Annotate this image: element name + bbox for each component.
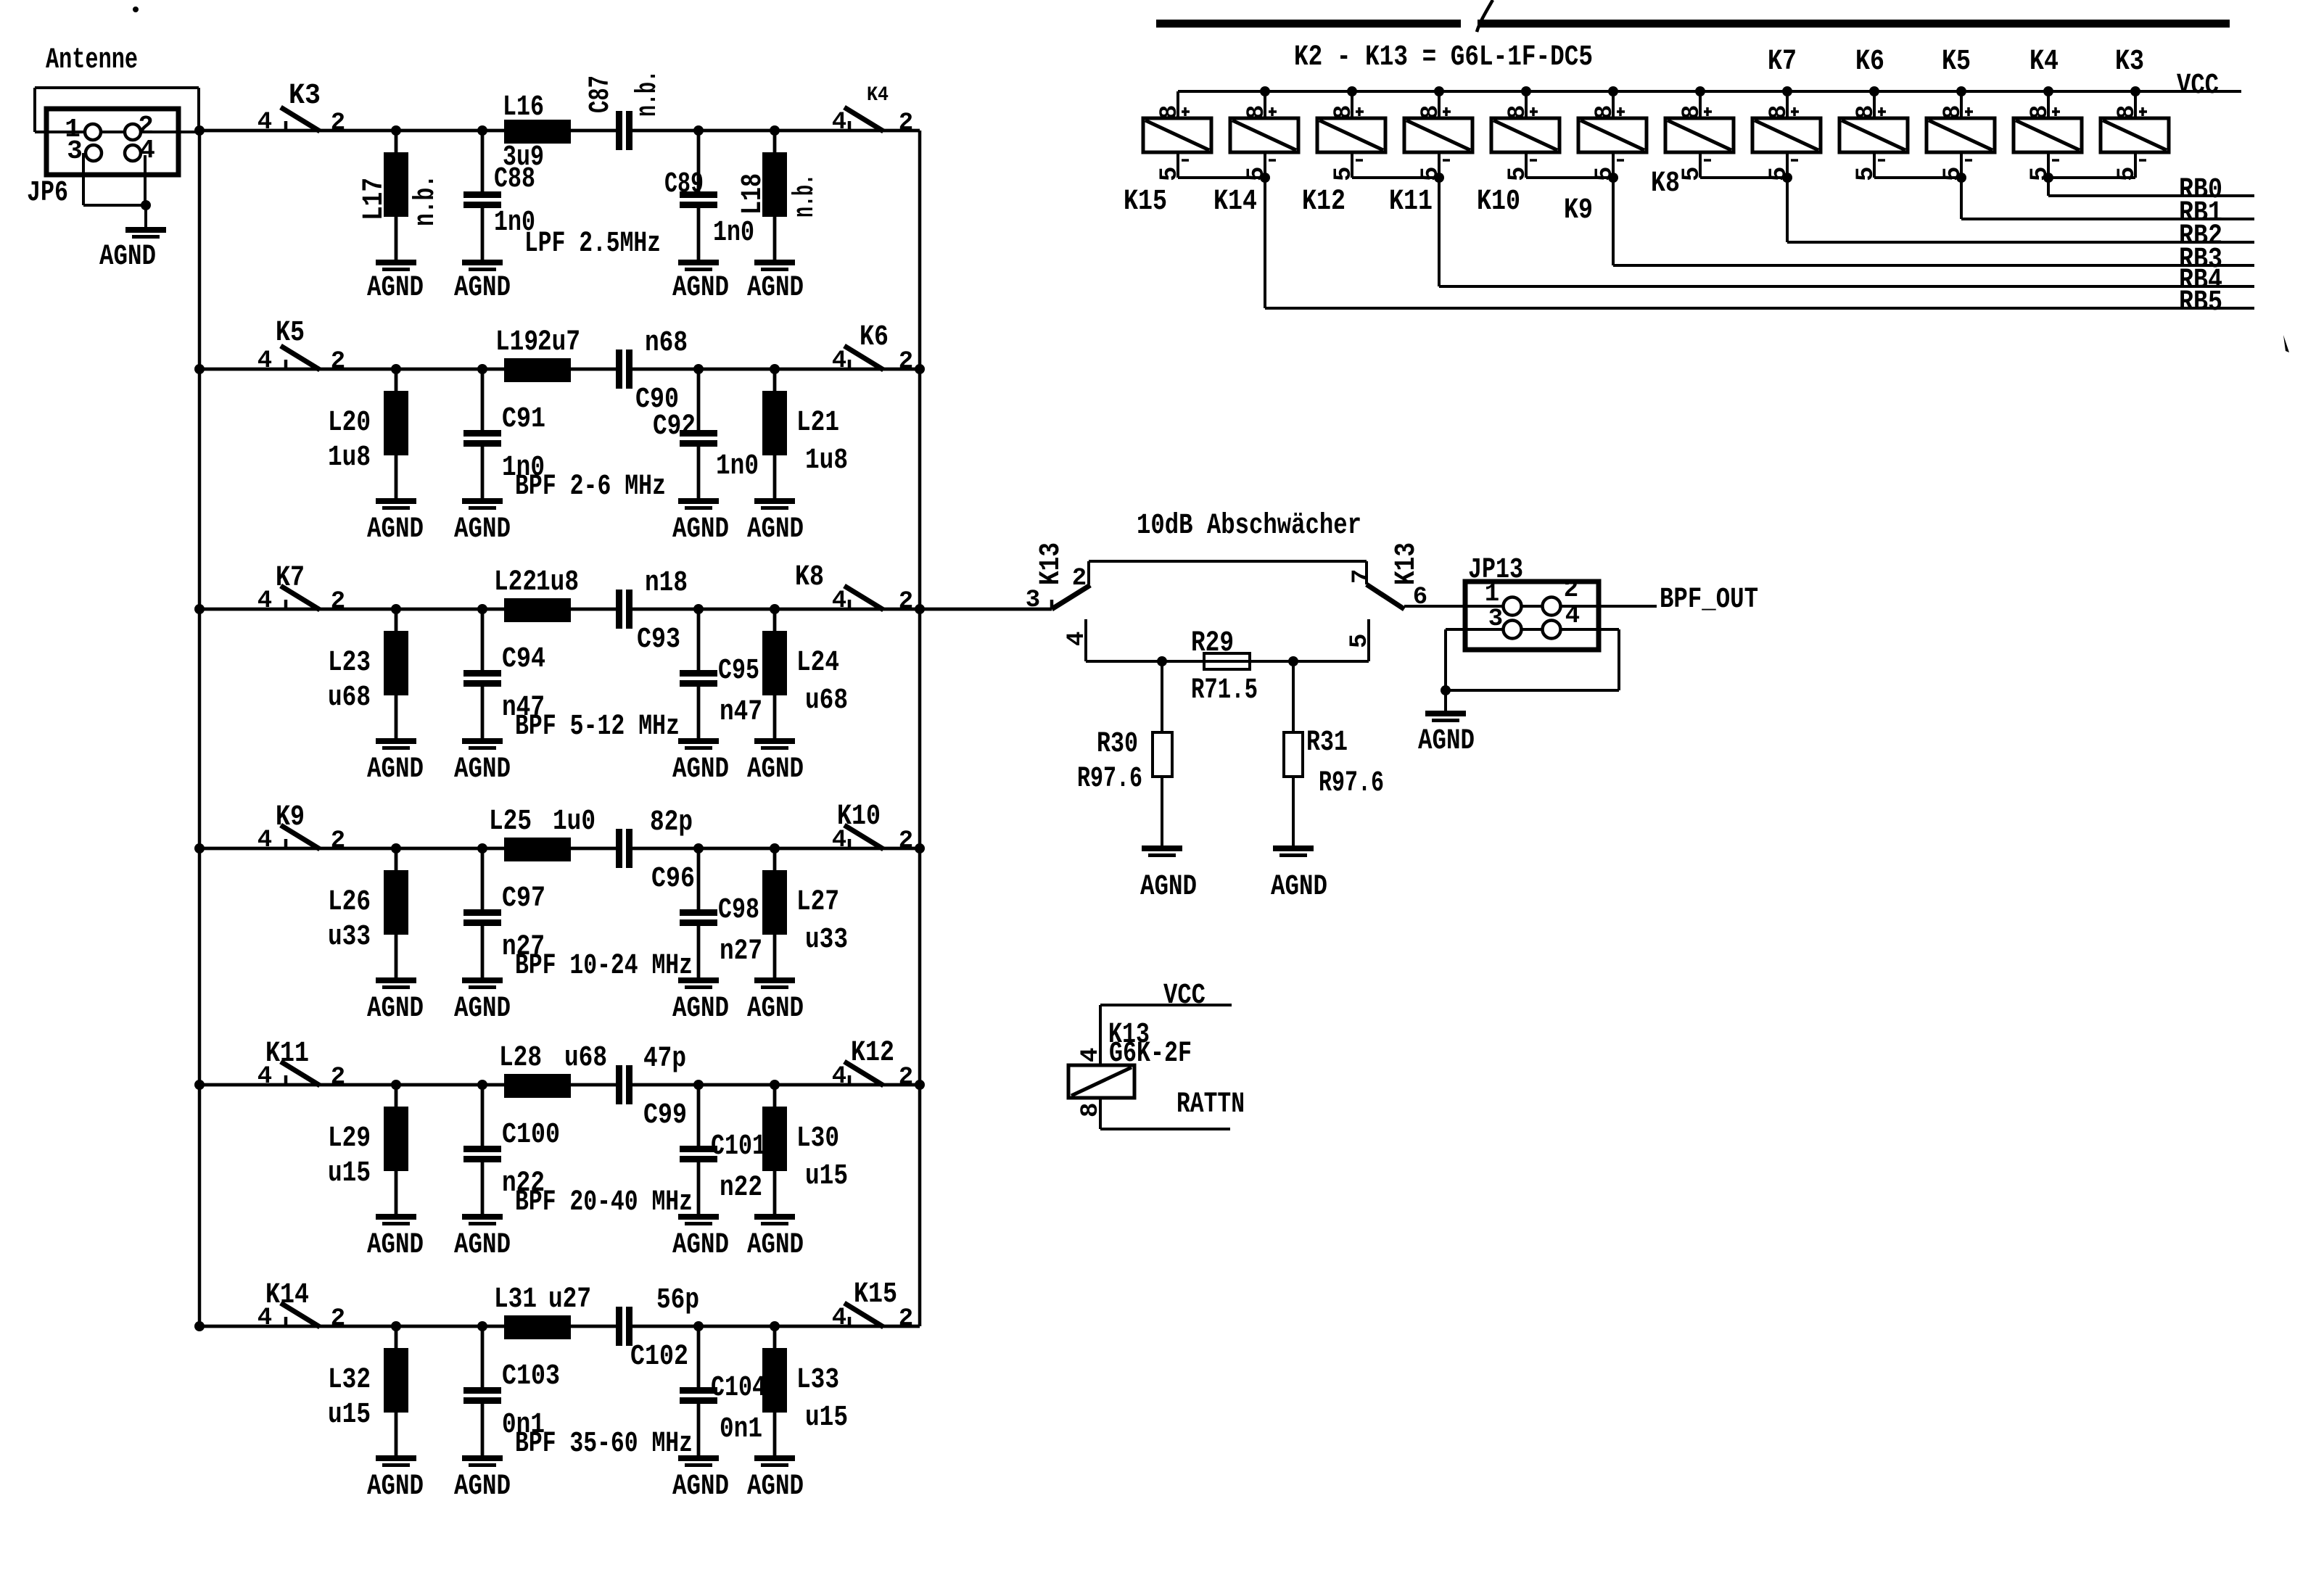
svg-text:u15: u15 — [805, 1160, 848, 1193]
svg-text:u33: u33 — [805, 924, 848, 956]
svg-text:1u8: 1u8 — [536, 566, 579, 599]
svg-text:AGND: AGND — [367, 1229, 424, 1262]
svg-text:L27: L27 — [796, 886, 839, 919]
svg-text:AGND: AGND — [454, 1471, 511, 1503]
svg-text:4: 4 — [1063, 632, 1091, 646]
svg-text:8: 8 — [1504, 105, 1532, 120]
svg-text:K3: K3 — [289, 80, 321, 112]
svg-text:K2 - K13 = G6L-1F-DC5: K2 - K13 = G6L-1F-DC5 — [1294, 41, 1593, 74]
svg-text:L16: L16 — [503, 91, 544, 124]
svg-text:K13: K13 — [1390, 542, 1423, 585]
svg-text:L32: L32 — [328, 1364, 371, 1397]
svg-text:AGND: AGND — [1271, 871, 1327, 904]
svg-text:BPF_OUT: BPF_OUT — [1660, 584, 1758, 616]
svg-text:K7: K7 — [1768, 46, 1797, 78]
svg-text:8: 8 — [2027, 105, 2054, 120]
svg-text:C98: C98 — [718, 894, 759, 927]
svg-text:C95: C95 — [718, 655, 759, 687]
svg-text:R97.6: R97.6 — [1077, 763, 1142, 795]
svg-text:AGND: AGND — [454, 513, 511, 546]
svg-text:C93: C93 — [637, 624, 680, 656]
svg-text:2: 2 — [1072, 565, 1087, 592]
svg-text:K6: K6 — [1855, 46, 1884, 78]
svg-text:n18: n18 — [645, 567, 688, 600]
svg-text:AGND: AGND — [99, 241, 156, 273]
svg-text:n47: n47 — [720, 696, 762, 729]
svg-text:AGND: AGND — [747, 513, 804, 546]
svg-text:AGND: AGND — [367, 272, 424, 305]
svg-text:8: 8 — [1940, 105, 1967, 120]
svg-text:8: 8 — [1330, 105, 1358, 120]
svg-text:2: 2 — [331, 109, 345, 137]
svg-text:C97: C97 — [502, 882, 545, 915]
svg-text:5: 5 — [1346, 634, 1374, 648]
svg-text:L20: L20 — [328, 407, 371, 439]
svg-text:BPF 10-24 MHz: BPF 10-24 MHz — [515, 950, 693, 983]
svg-text:L22: L22 — [494, 566, 537, 599]
svg-text:K3: K3 — [2115, 46, 2144, 78]
svg-text:BPF 35-60 MHz: BPF 35-60 MHz — [515, 1428, 693, 1460]
svg-text:AGND: AGND — [454, 753, 511, 786]
svg-text:1n0: 1n0 — [716, 450, 759, 483]
svg-text:L21: L21 — [796, 407, 839, 439]
svg-text:2: 2 — [899, 588, 913, 616]
svg-text:3: 3 — [1488, 605, 1503, 633]
svg-text:8: 8 — [1417, 105, 1445, 120]
svg-text:2: 2 — [331, 1064, 345, 1091]
svg-text:K11: K11 — [265, 1038, 309, 1070]
svg-text:3: 3 — [1026, 587, 1040, 614]
svg-text:RATTN: RATTN — [1176, 1088, 1245, 1121]
svg-text:AGND: AGND — [672, 993, 729, 1025]
svg-text:2: 2 — [1564, 576, 1578, 604]
svg-text:0n1: 0n1 — [720, 1413, 762, 1446]
svg-text:u68: u68 — [564, 1042, 607, 1075]
svg-text:C96: C96 — [651, 863, 695, 896]
svg-text:L30: L30 — [796, 1122, 839, 1155]
svg-text:AGND: AGND — [672, 1229, 729, 1262]
svg-text:8: 8 — [1678, 105, 1706, 120]
svg-text:1u8: 1u8 — [328, 442, 371, 474]
svg-text:4: 4 — [832, 1063, 846, 1091]
svg-text:K8: K8 — [1651, 168, 1680, 200]
svg-text:7: 7 — [1348, 569, 1376, 584]
svg-text:2u7: 2u7 — [537, 326, 580, 359]
svg-text:K10: K10 — [837, 801, 881, 833]
svg-text:n.b.: n.b. — [632, 70, 664, 117]
svg-text:AGND: AGND — [454, 1229, 511, 1262]
svg-text:2: 2 — [331, 1305, 345, 1333]
svg-text:AGND: AGND — [1418, 725, 1475, 758]
svg-text:BPF 5-12 MHz: BPF 5-12 MHz — [515, 711, 680, 743]
svg-text:C102: C102 — [630, 1341, 688, 1373]
svg-text:VCC: VCC — [2177, 70, 2219, 102]
svg-text:K4: K4 — [867, 84, 889, 107]
svg-text:C92: C92 — [653, 410, 696, 443]
svg-text:u15: u15 — [805, 1402, 848, 1434]
svg-text:BPF 2-6 MHz: BPF 2-6 MHz — [515, 471, 666, 503]
svg-text:K9: K9 — [276, 801, 305, 834]
svg-text:4: 4 — [257, 347, 272, 375]
svg-text:R29: R29 — [1191, 627, 1234, 660]
svg-text:R30: R30 — [1097, 728, 1138, 761]
svg-text:4: 4 — [1077, 1048, 1105, 1062]
svg-text:47p: 47p — [643, 1043, 686, 1075]
svg-text:L24: L24 — [796, 647, 839, 679]
svg-text:C94: C94 — [502, 643, 545, 676]
svg-text:n68: n68 — [645, 327, 688, 360]
svg-text:AGND: AGND — [1140, 871, 1197, 904]
svg-text:BPF 20-40 MHz: BPF 20-40 MHz — [515, 1186, 693, 1219]
svg-text:8: 8 — [1853, 105, 1880, 120]
svg-text:R71.5: R71.5 — [1191, 674, 1258, 707]
svg-text:AGND: AGND — [454, 993, 511, 1025]
svg-text:G6K-2F: G6K-2F — [1109, 1038, 1192, 1070]
svg-text:L23: L23 — [328, 647, 371, 679]
svg-text:2: 2 — [899, 827, 913, 855]
svg-text:K14: K14 — [265, 1279, 309, 1312]
svg-text:LPF 2.5MHz: LPF 2.5MHz — [524, 228, 661, 260]
svg-text:AGND: AGND — [747, 753, 804, 786]
svg-text:C99: C99 — [643, 1099, 687, 1132]
svg-text:C103: C103 — [502, 1360, 560, 1393]
svg-text:u33: u33 — [328, 921, 371, 954]
svg-text:VCC: VCC — [1163, 980, 1206, 1012]
svg-text:C104: C104 — [711, 1372, 766, 1405]
svg-text:4: 4 — [832, 109, 846, 136]
svg-text:K11: K11 — [1389, 186, 1433, 218]
svg-text:3: 3 — [67, 136, 83, 166]
svg-text:AGND: AGND — [747, 1229, 804, 1262]
svg-text:2: 2 — [899, 1305, 913, 1333]
svg-text:n.b.: n.b. — [410, 175, 442, 226]
svg-text:AGND: AGND — [367, 993, 424, 1025]
svg-text:K5: K5 — [1942, 46, 1971, 78]
svg-text:C89: C89 — [664, 168, 704, 201]
svg-text:2: 2 — [331, 348, 345, 376]
svg-text:8: 8 — [2114, 105, 2141, 120]
svg-text:1: 1 — [1485, 581, 1499, 608]
svg-text:8: 8 — [1243, 105, 1271, 120]
svg-text:R97.6: R97.6 — [1319, 767, 1384, 800]
svg-text:56p: 56p — [656, 1284, 699, 1317]
svg-text:4: 4 — [1565, 603, 1580, 630]
svg-text:1u0: 1u0 — [553, 806, 596, 838]
svg-text:4: 4 — [257, 109, 272, 136]
svg-text:2: 2 — [899, 109, 913, 137]
svg-text:8: 8 — [1591, 105, 1619, 120]
svg-text:n.b.: n.b. — [789, 174, 822, 218]
svg-text:C87: C87 — [585, 75, 617, 113]
svg-text:u68: u68 — [805, 685, 848, 717]
svg-text:L25: L25 — [489, 806, 532, 838]
svg-text:1u8: 1u8 — [805, 445, 848, 477]
svg-text:Antenne: Antenne — [46, 44, 138, 77]
svg-text:8: 8 — [1156, 105, 1184, 120]
svg-text:1n0: 1n0 — [713, 217, 754, 249]
svg-text:AGND: AGND — [454, 272, 511, 305]
svg-text:L26: L26 — [328, 886, 371, 919]
svg-text:K7: K7 — [276, 562, 305, 595]
svg-text:AGND: AGND — [672, 1471, 729, 1503]
svg-text:K10: K10 — [1477, 186, 1520, 218]
svg-text:L28: L28 — [499, 1042, 542, 1075]
svg-text:4: 4 — [139, 136, 155, 165]
svg-text:K12: K12 — [1302, 186, 1345, 218]
svg-text:8: 8 — [1765, 105, 1793, 120]
svg-text:L29: L29 — [328, 1122, 371, 1155]
svg-text:L33: L33 — [796, 1364, 839, 1397]
svg-text:u15: u15 — [328, 1157, 371, 1190]
svg-text:AGND: AGND — [672, 753, 729, 786]
svg-text:C88: C88 — [494, 163, 535, 196]
svg-text:K13: K13 — [1035, 542, 1068, 585]
svg-text:AGND: AGND — [747, 272, 804, 305]
svg-text:u27: u27 — [548, 1283, 591, 1316]
svg-text:K15: K15 — [854, 1278, 897, 1311]
svg-text:RB0: RB0 — [2179, 174, 2222, 207]
svg-text:K12: K12 — [851, 1037, 894, 1070]
svg-text:4: 4 — [832, 1304, 846, 1332]
svg-text:AGND: AGND — [672, 513, 729, 546]
svg-text:L18: L18 — [737, 173, 770, 215]
svg-text:AGND: AGND — [672, 272, 729, 305]
svg-text:K6: K6 — [860, 321, 889, 354]
svg-text:K5: K5 — [276, 317, 305, 350]
svg-text:2: 2 — [899, 348, 913, 376]
svg-text:2: 2 — [331, 588, 345, 616]
svg-text:AGND: AGND — [747, 993, 804, 1025]
svg-text:4: 4 — [832, 587, 846, 615]
svg-text:L17: L17 — [358, 178, 391, 220]
svg-text:K15: K15 — [1124, 186, 1167, 218]
svg-text:u15: u15 — [328, 1399, 371, 1431]
svg-text:JP6: JP6 — [27, 177, 68, 210]
svg-text:C101: C101 — [711, 1130, 766, 1163]
svg-text:u68: u68 — [328, 682, 371, 714]
svg-text:C91: C91 — [502, 403, 545, 436]
svg-text:AGND: AGND — [367, 513, 424, 546]
svg-text:n27: n27 — [720, 935, 762, 968]
svg-text:L19: L19 — [495, 326, 538, 359]
svg-text:AGND: AGND — [747, 1471, 804, 1503]
svg-text:K8: K8 — [795, 561, 824, 594]
svg-text:AGND: AGND — [367, 1471, 424, 1503]
svg-text:2: 2 — [331, 827, 345, 855]
svg-text:K4: K4 — [2029, 46, 2059, 78]
svg-text:n22: n22 — [720, 1172, 762, 1204]
svg-text:10dB Abschwächer: 10dB Abschwächer — [1137, 510, 1361, 542]
svg-text:C100: C100 — [502, 1119, 560, 1151]
svg-text:4: 4 — [257, 827, 272, 854]
svg-text:K9: K9 — [1564, 194, 1593, 227]
svg-text:L31: L31 — [494, 1283, 537, 1316]
svg-text:4: 4 — [832, 347, 846, 375]
svg-text:AGND: AGND — [367, 753, 424, 786]
svg-text:2: 2 — [899, 1064, 913, 1091]
svg-text:K14: K14 — [1213, 186, 1257, 218]
svg-text:4: 4 — [257, 587, 272, 615]
svg-text:82p: 82p — [650, 806, 693, 839]
svg-text:R31: R31 — [1306, 727, 1348, 759]
